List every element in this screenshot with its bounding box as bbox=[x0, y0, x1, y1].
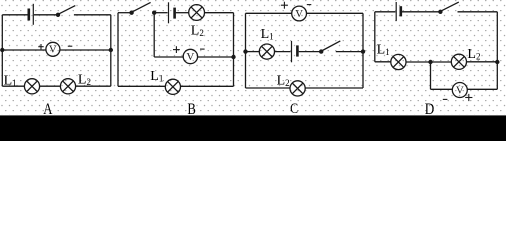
minus label of voltmeter A bbox=[68, 45, 73, 47]
wire C top rail right bbox=[306, 12, 363, 14]
wire A bottom rail left bbox=[2, 85, 24, 87]
node C left (junction dot) bbox=[243, 49, 247, 53]
wire B middle rail right bbox=[198, 56, 234, 58]
wire B battery to lamp L2 bbox=[176, 12, 189, 14]
switch S2 (open) bbox=[129, 2, 156, 15]
wire C right side bbox=[362, 13, 364, 88]
svg-text:V: V bbox=[456, 84, 464, 96]
plus label of voltmeter D bbox=[465, 94, 472, 101]
node B right tap (junction dot) bbox=[231, 55, 235, 59]
switch S4 (open) bbox=[438, 2, 459, 14]
wire D right side bbox=[496, 12, 498, 90]
wire C middle rail left bbox=[246, 51, 260, 53]
wire B switch to battery bbox=[154, 12, 167, 14]
svg-text:V: V bbox=[49, 43, 57, 55]
wire D lamp L2 to right side bbox=[467, 61, 498, 63]
plus label of voltmeter B bbox=[173, 46, 180, 53]
minus label of voltmeter C bbox=[307, 4, 312, 6]
switch S3 (open) bbox=[319, 41, 340, 54]
wire D middle rail left bbox=[375, 61, 391, 63]
wire B left side bbox=[117, 13, 119, 87]
svg-text:A: A bbox=[43, 101, 53, 118]
wire B middle rail left bbox=[154, 56, 183, 58]
node A left (junction dot) bbox=[0, 48, 4, 52]
wire D top rail left bbox=[375, 11, 396, 13]
voltmeter V (C) bbox=[292, 6, 307, 21]
lamp L2 (D) bbox=[451, 54, 466, 69]
lamp L2 (C) bbox=[290, 81, 305, 96]
voltmeter V (A) bbox=[46, 42, 60, 56]
node D right (junction dot) bbox=[495, 60, 499, 64]
wire B right side bbox=[233, 13, 235, 87]
wire C lamp L1 to battery bbox=[275, 51, 291, 53]
battery G1 bbox=[29, 4, 34, 25]
lamp L2 (A) bbox=[60, 79, 75, 94]
lamp L1 (B) bbox=[165, 79, 180, 94]
black crop bar bbox=[0, 115, 506, 141]
wire D bottom rail right bbox=[467, 88, 497, 90]
wire A left side bbox=[1, 15, 3, 86]
wire C bottom rail right bbox=[305, 87, 363, 89]
lamp L1 (D) bbox=[391, 54, 406, 69]
plus label of voltmeter A bbox=[38, 44, 43, 49]
wire A switch to top-right corner bbox=[74, 14, 111, 16]
svg-text:V: V bbox=[186, 51, 194, 63]
wire D battery to switch bbox=[402, 11, 439, 13]
wire A battery to switch bbox=[34, 14, 57, 16]
svg-text:C: C bbox=[290, 101, 298, 117]
wire A right side bbox=[110, 15, 112, 86]
wire B lamp L2 to top-right corner bbox=[204, 12, 234, 14]
svg-text:V: V bbox=[295, 8, 303, 20]
plus label of voltmeter C bbox=[281, 2, 288, 9]
node A right (junction dot) bbox=[109, 48, 113, 52]
wire A between lamps bbox=[40, 85, 61, 87]
lamp L1 (A) bbox=[24, 79, 39, 94]
wire C left side bbox=[245, 13, 247, 88]
svg-text:B: B bbox=[187, 101, 196, 118]
wire C switch to right bbox=[336, 51, 363, 53]
lamp L2 (B) bbox=[189, 5, 205, 21]
wire D voltmeter tap (vertical) bbox=[430, 62, 432, 89]
wire C top rail left bbox=[246, 12, 293, 14]
battery G4 bbox=[396, 2, 401, 21]
wire D switch to top-right corner bbox=[458, 11, 498, 13]
wire A middle rail left bbox=[2, 49, 46, 51]
wire B bottom rail right bbox=[181, 85, 234, 87]
wire D left side bbox=[374, 12, 376, 62]
wire D lamp L1 to lamp L2 bbox=[406, 61, 451, 63]
svg-text:D: D bbox=[425, 101, 435, 118]
wire C bottom rail left bbox=[246, 87, 291, 89]
minus label of voltmeter B bbox=[200, 48, 205, 50]
wire D bottom rail left bbox=[431, 88, 453, 90]
node D mid (junction dot) bbox=[428, 60, 432, 64]
minus label of voltmeter D bbox=[443, 98, 448, 100]
battery G3 bbox=[292, 41, 298, 62]
wire B bottom rail left bbox=[118, 85, 165, 87]
wire A middle rail right bbox=[60, 49, 111, 51]
voltmeter V (D) bbox=[452, 83, 467, 98]
lamp L1 (C) bbox=[259, 44, 274, 59]
wire A bottom rail right bbox=[76, 85, 111, 87]
wire C battery to switch bbox=[299, 51, 320, 53]
voltmeter V (B) bbox=[183, 49, 197, 63]
wire B top rail left bbox=[118, 12, 131, 14]
wire B voltmeter tap (vertical) bbox=[153, 13, 155, 57]
node C right (junction dot) bbox=[361, 49, 365, 53]
battery G2 bbox=[169, 2, 175, 23]
switch S1 (open) bbox=[56, 6, 76, 17]
wire A top rail left bbox=[2, 14, 27, 16]
